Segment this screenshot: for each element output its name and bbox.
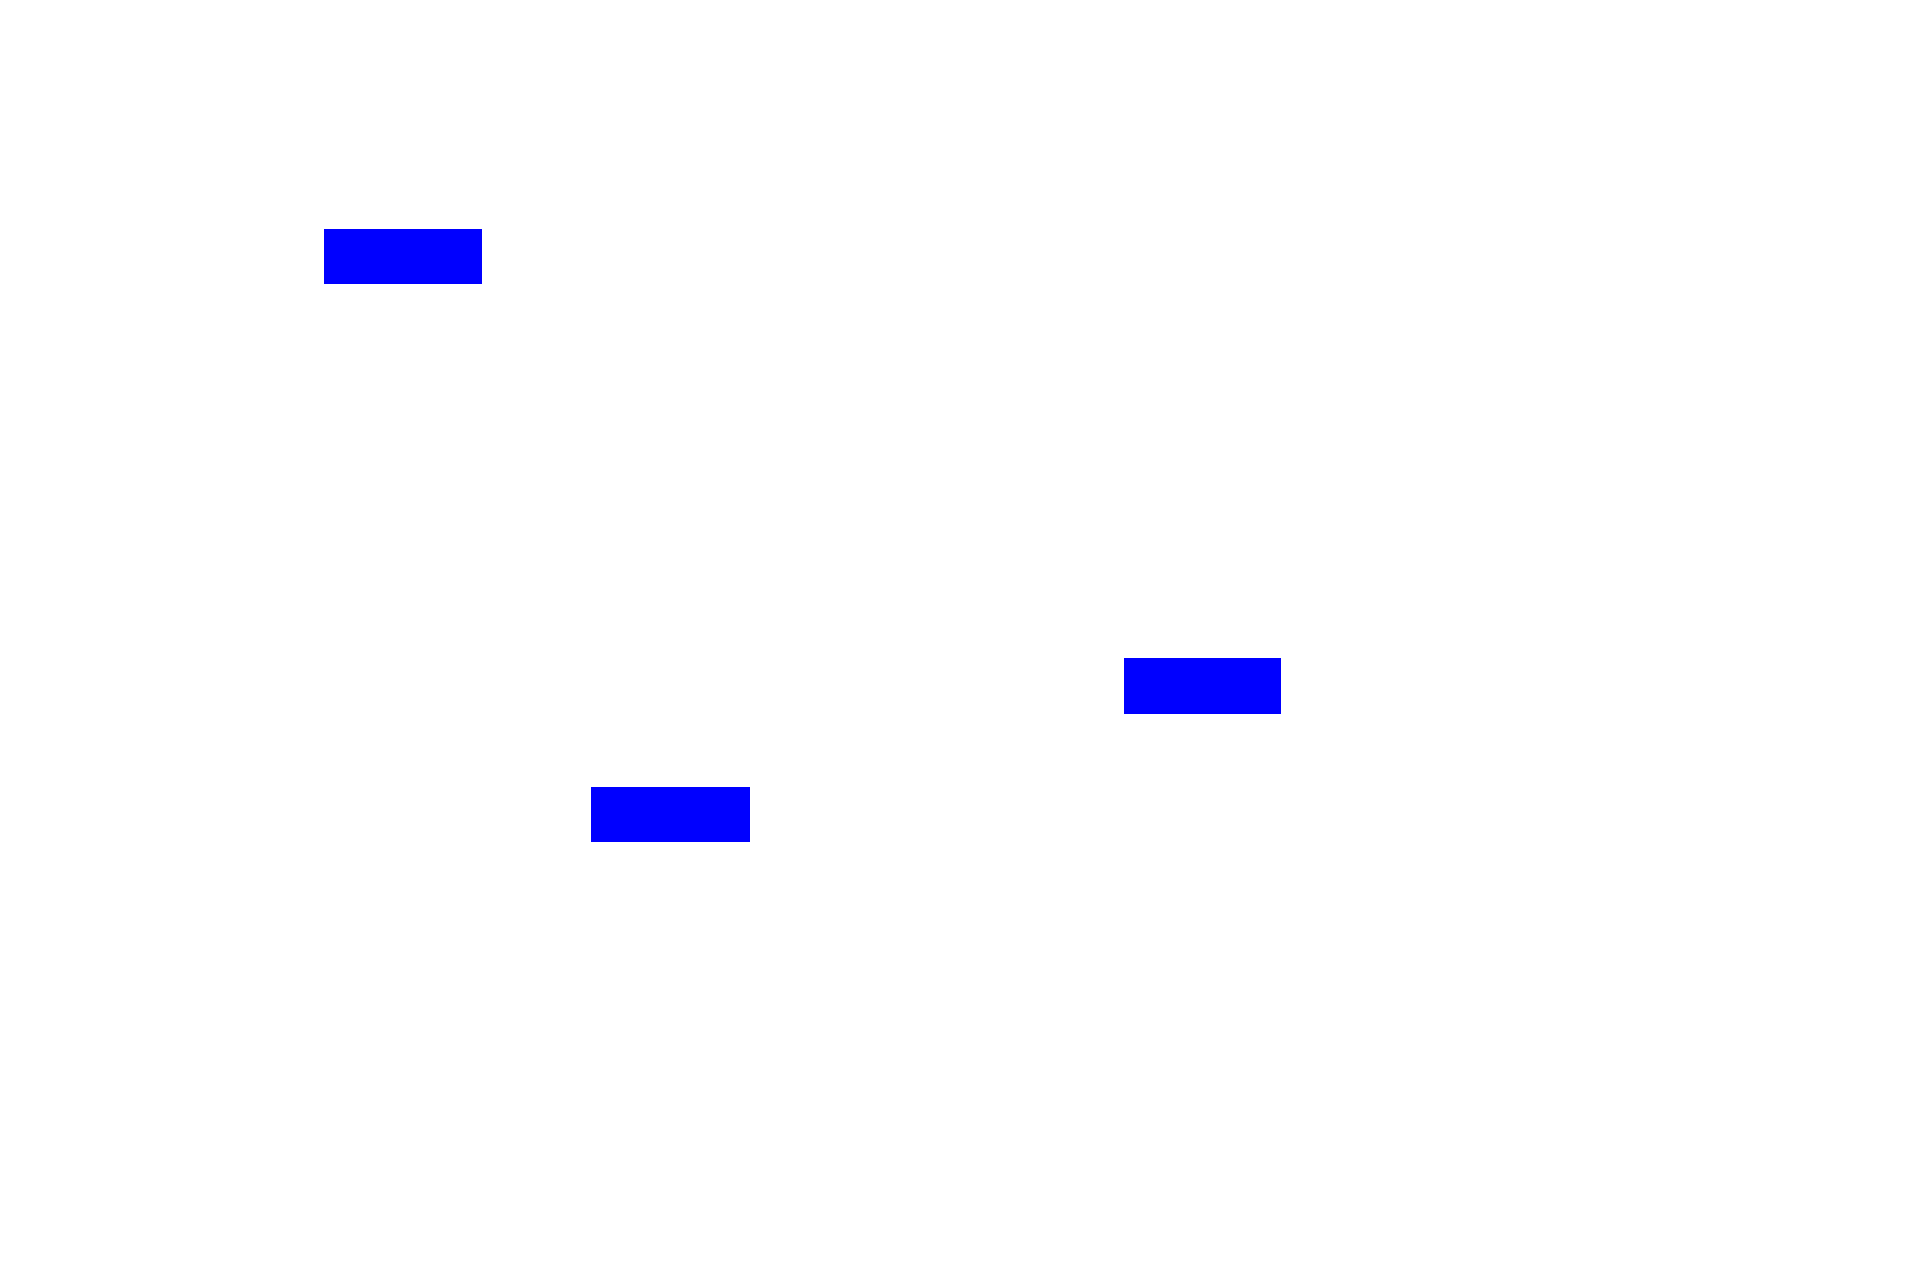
blue rectangle 1	[324, 229, 482, 284]
blue rectangle 2	[1124, 658, 1281, 714]
blue rectangle 3	[591, 787, 750, 842]
